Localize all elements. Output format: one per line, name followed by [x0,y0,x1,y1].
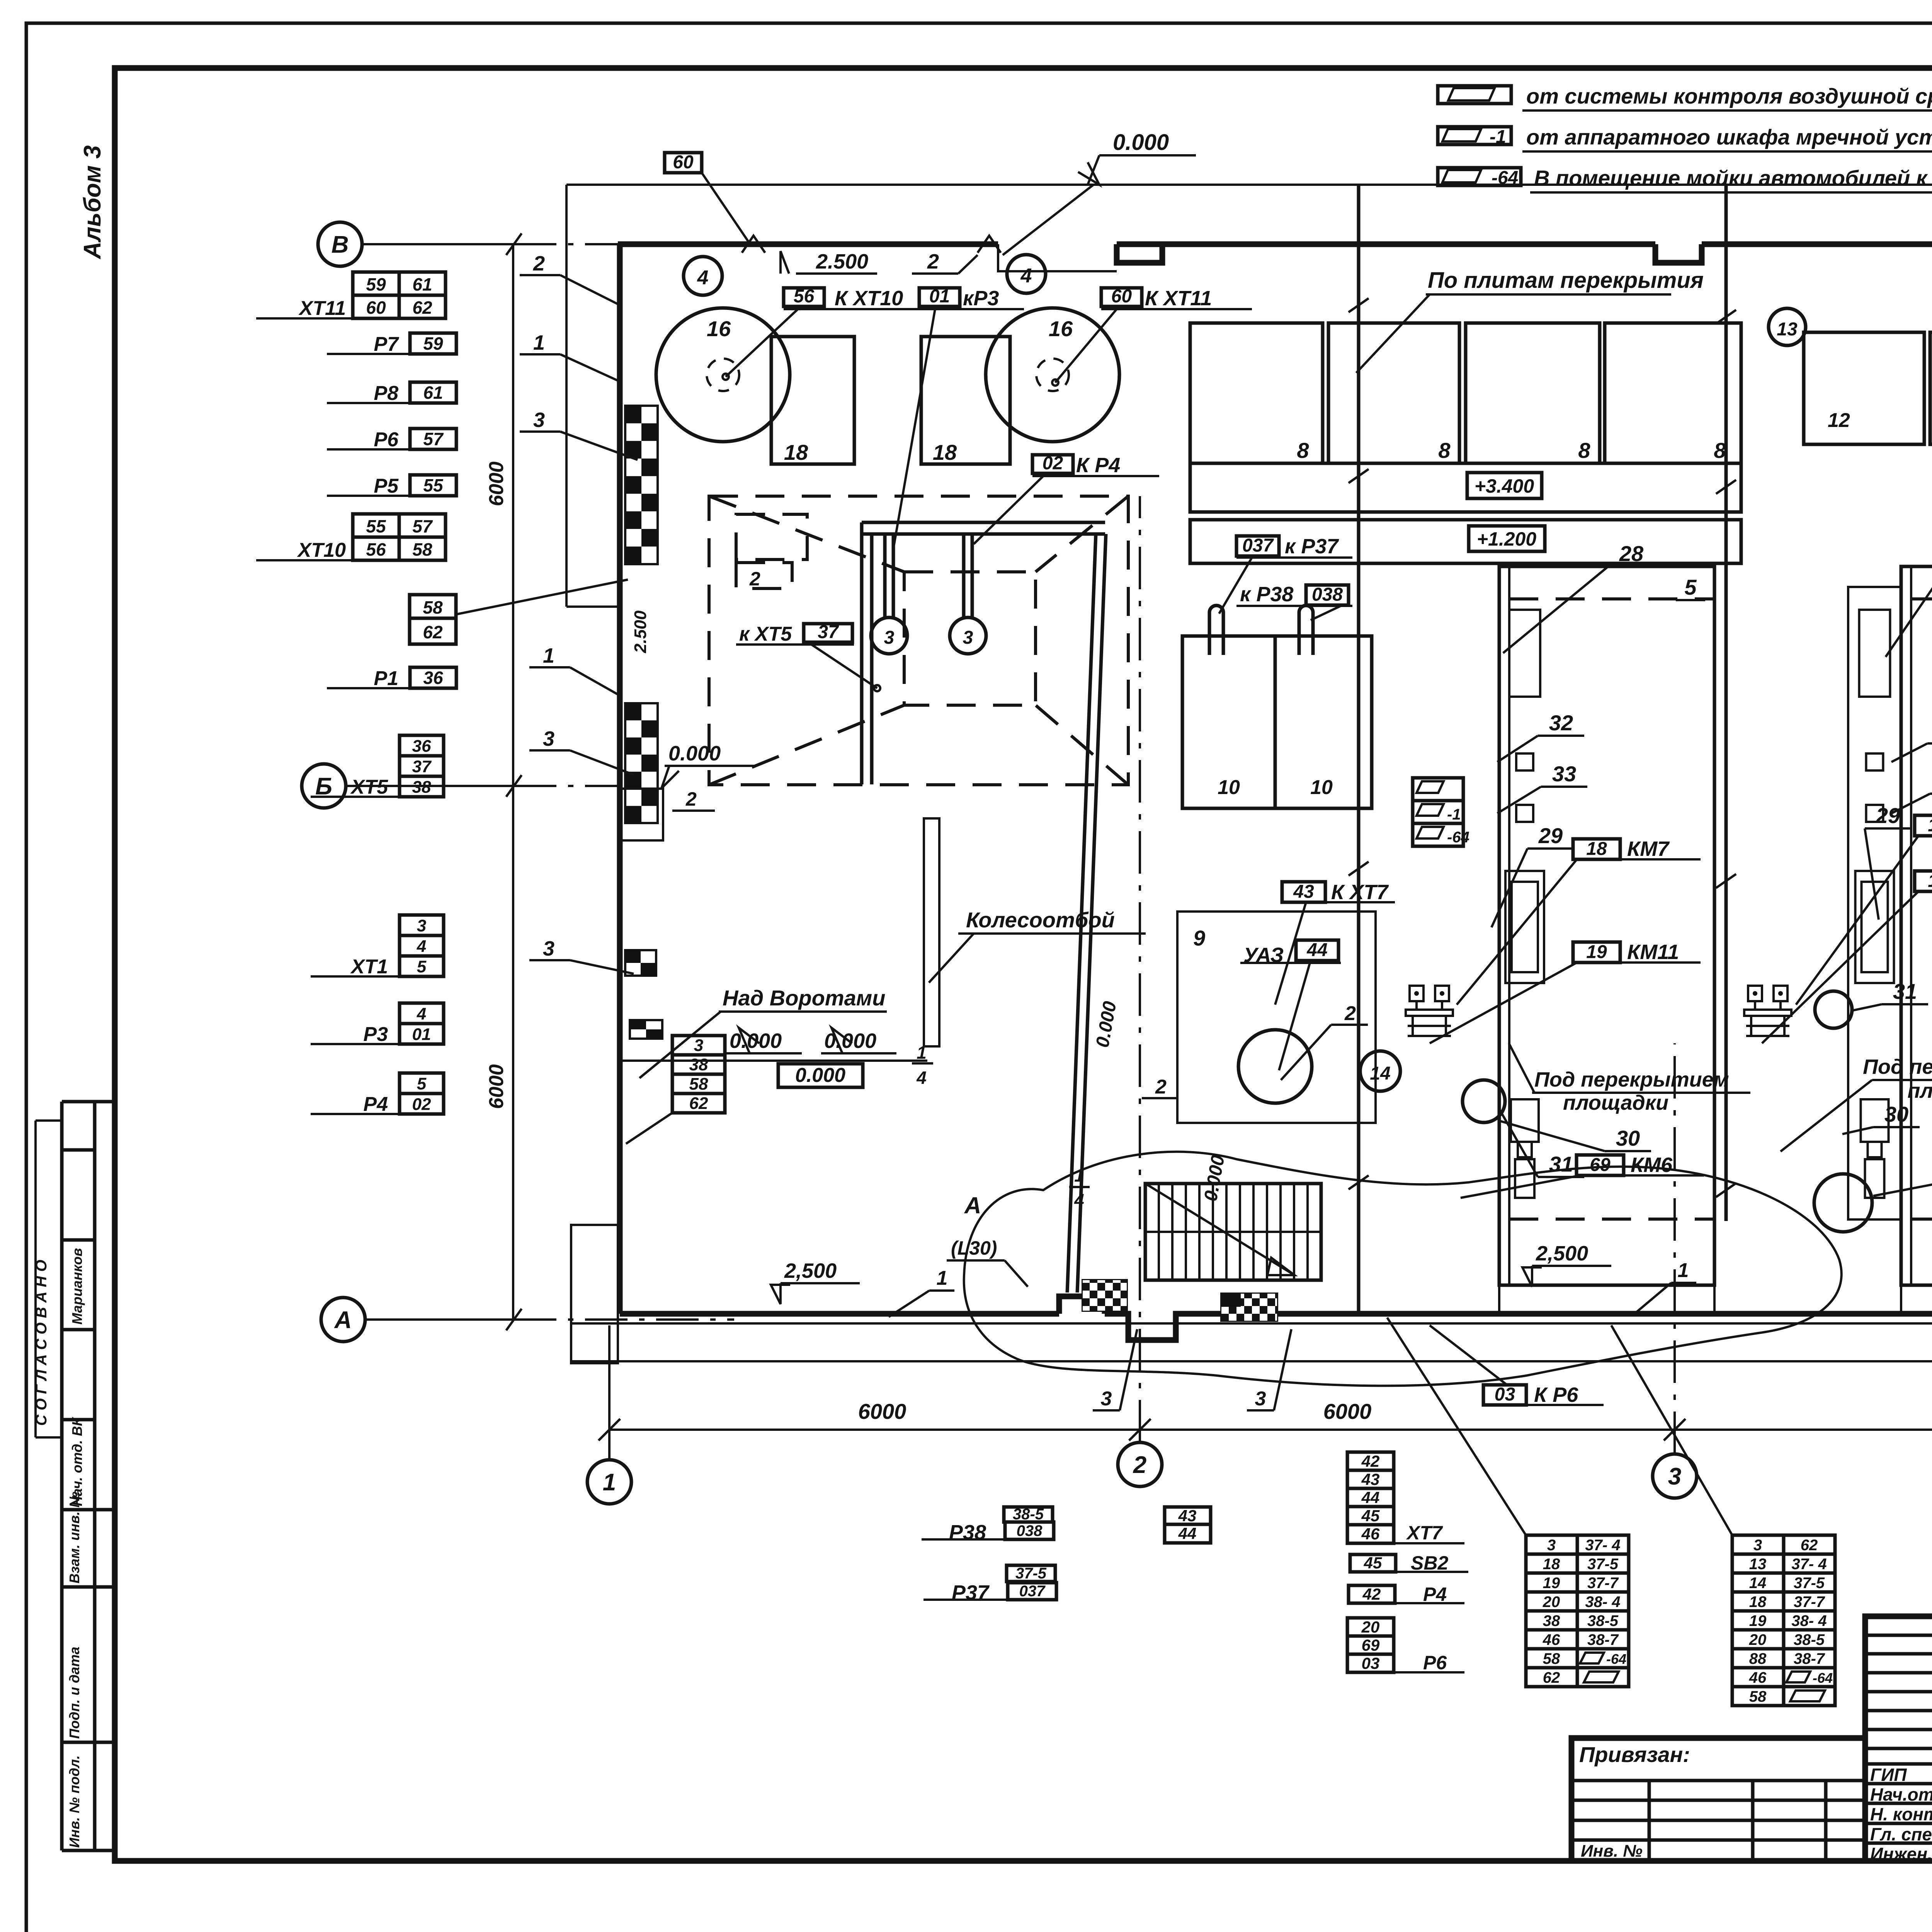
svg-text:1: 1 [603,1469,616,1496]
svg-text:Р4: Р4 [363,1093,388,1116]
svg-text:2: 2 [927,250,939,273]
svg-text:Подп. и дата: Подп. и дата [66,1647,82,1739]
svg-text:Марианков: Марианков [69,1248,85,1325]
svg-text:-64: -64 [1447,829,1469,846]
svg-text:Р4: Р4 [1423,1583,1447,1605]
svg-text:2: 2 [1155,1076,1167,1098]
svg-text:14: 14 [1928,871,1932,891]
svg-text:43: 43 [1361,1470,1380,1488]
svg-text:Под перекрытием: Под перекрытием [1863,1055,1932,1078]
svg-text:(L30): (L30) [951,1237,997,1259]
svg-text:56: 56 [366,539,386,560]
svg-text:13: 13 [1928,815,1932,835]
svg-text:3: 3 [1753,1537,1762,1554]
svg-text:Н. контр.: Н. контр. [1870,1804,1932,1824]
svg-text:03: 03 [1362,1654,1380,1672]
svg-text:Привязан:: Привязан: [1579,1742,1690,1767]
svg-text:59: 59 [366,274,386,294]
svg-text:2: 2 [749,568,760,590]
svg-text:К ХТ11: К ХТ11 [1145,287,1212,310]
svg-text:037: 037 [1242,536,1274,556]
svg-text:ГИП: ГИП [1870,1765,1907,1785]
svg-text:В: В [332,231,349,258]
svg-text:28: 28 [1619,541,1644,566]
svg-text:Гл. спец.: Гл. спец. [1870,1824,1932,1844]
svg-text:88: 88 [1749,1650,1767,1667]
svg-text:ХТ11: ХТ11 [298,297,346,320]
svg-text:38: 38 [689,1055,708,1074]
svg-text:37-5: 37-5 [1587,1556,1619,1573]
svg-text:-1: -1 [1490,127,1506,147]
svg-text:К Р6: К Р6 [1534,1383,1578,1406]
svg-text:кР3: кР3 [963,287,999,310]
svg-text:16: 16 [1049,316,1073,341]
svg-text:32: 32 [1549,711,1573,735]
svg-text:площадки: площадки [1563,1091,1668,1114]
svg-text:037: 037 [1019,1583,1046,1600]
svg-text:38-5: 38-5 [1587,1612,1619,1629]
svg-text:0.000: 0.000 [795,1064,845,1087]
svg-text:-64: -64 [1606,1651,1626,1667]
svg-text:13: 13 [1749,1556,1767,1573]
svg-text:6000: 6000 [1323,1399,1372,1423]
svg-text:59: 59 [423,333,443,354]
svg-text:36: 36 [423,668,443,688]
svg-text:Б: Б [315,773,332,800]
svg-text:Р3: Р3 [363,1023,388,1046]
svg-text:37- 4: 37- 4 [1791,1556,1827,1573]
svg-text:01: 01 [929,286,950,306]
svg-text:2: 2 [1344,1002,1356,1025]
svg-text:SВ2: SВ2 [1411,1552,1448,1574]
svg-text:57: 57 [423,429,444,449]
svg-text:3: 3 [533,408,545,432]
svg-text:01: 01 [412,1025,431,1044]
svg-text:8: 8 [1297,438,1309,463]
svg-text:02: 02 [412,1095,431,1114]
svg-text:2: 2 [1133,1452,1146,1478]
svg-text:0.000: 0.000 [1113,130,1169,155]
svg-text:Инв. №: Инв. № [1581,1842,1643,1861]
svg-text:18: 18 [1586,838,1607,859]
svg-text:12: 12 [1828,409,1850,432]
svg-text:6000: 6000 [485,1064,508,1109]
svg-text:Альбом 3: Альбом 3 [79,145,106,260]
svg-text:А: А [964,1192,981,1218]
svg-text:37: 37 [412,757,432,776]
svg-text:38-7: 38-7 [1794,1650,1825,1667]
svg-text:4: 4 [916,1068,927,1088]
svg-text:Р7: Р7 [374,333,399,355]
svg-text:31: 31 [1893,979,1917,1003]
svg-text:55: 55 [423,475,444,495]
svg-text:44: 44 [1306,940,1327,960]
svg-text:30: 30 [1616,1126,1640,1150]
svg-text:5: 5 [1684,575,1697,599]
svg-text:к ХТ5: к ХТ5 [739,623,792,645]
svg-text:К Р4: К Р4 [1076,454,1120,477]
svg-text:38- 4: 38- 4 [1791,1612,1827,1629]
svg-text:19: 19 [1586,942,1607,962]
svg-text:30: 30 [1884,1102,1908,1126]
svg-text:56: 56 [794,286,815,306]
svg-text:4: 4 [1020,265,1032,287]
svg-text:37-5: 37-5 [1794,1575,1825,1592]
svg-text:20: 20 [1361,1618,1380,1636]
svg-text:29: 29 [1538,823,1563,848]
svg-text:ХТ10: ХТ10 [297,539,346,561]
svg-text:33: 33 [1552,762,1576,786]
svg-text:62: 62 [1543,1669,1560,1686]
svg-text:2: 2 [685,788,697,810]
svg-text:69: 69 [1590,1155,1611,1175]
svg-text:1: 1 [543,644,554,667]
svg-text:2,500: 2,500 [784,1259,837,1282]
svg-text:+3.400: +3.400 [1475,475,1534,497]
svg-text:61: 61 [412,274,432,294]
svg-text:42: 42 [1361,1452,1380,1470]
svg-text:58: 58 [1543,1650,1560,1667]
svg-text:038: 038 [1017,1522,1043,1539]
svg-text:37-7: 37-7 [1587,1575,1619,1592]
svg-text:37: 37 [818,622,839,642]
svg-text:37-7: 37-7 [1794,1594,1825,1611]
svg-text:2,500: 2,500 [1536,1242,1588,1265]
svg-text:к Р37: к Р37 [1285,535,1339,558]
svg-text:3: 3 [417,916,426,935]
svg-text:38: 38 [1543,1612,1560,1629]
svg-text:от аппаратного шкафа мречной: от аппаратного шкафа мречной установки [1526,125,1932,149]
svg-text:3: 3 [884,628,895,648]
svg-text:4: 4 [417,1004,426,1023]
svg-text:Взам. инв. №: Взам. инв. № [66,1492,82,1583]
svg-text:ХТ1: ХТ1 [350,956,388,978]
svg-text:55: 55 [366,516,386,536]
svg-text:69: 69 [1362,1636,1380,1654]
svg-text:43: 43 [1293,881,1314,902]
svg-text:КМ7: КМ7 [1627,837,1670,861]
svg-text:62: 62 [1801,1537,1818,1554]
svg-text:3: 3 [1255,1388,1266,1410]
svg-text:КМ6: КМ6 [1631,1153,1673,1177]
svg-text:36: 36 [412,736,431,755]
svg-text:Р6: Р6 [374,429,399,451]
svg-text:5: 5 [417,1074,427,1093]
svg-text:57: 57 [412,516,433,536]
svg-text:60: 60 [366,298,386,318]
svg-text:2.500: 2.500 [816,250,868,273]
svg-text:10: 10 [1310,776,1333,799]
svg-text:38-7: 38-7 [1587,1631,1619,1648]
svg-text:Р5: Р5 [374,475,399,497]
svg-text:14: 14 [1370,1063,1390,1084]
svg-text:038: 038 [1312,585,1343,605]
svg-text:14: 14 [1749,1575,1767,1592]
svg-text:3: 3 [1547,1537,1556,1554]
svg-text:3: 3 [963,628,973,648]
svg-text:46: 46 [1749,1669,1767,1686]
svg-text:К ХТ10: К ХТ10 [835,287,903,310]
svg-text:18: 18 [1749,1594,1767,1611]
svg-text:18: 18 [933,440,957,464]
svg-text:19: 19 [1543,1575,1560,1592]
svg-text:58: 58 [423,597,443,617]
svg-text:46: 46 [1361,1525,1380,1543]
svg-text:20: 20 [1543,1594,1560,1611]
svg-text:к Р38: к Р38 [1240,583,1293,606]
svg-text:18: 18 [1543,1556,1560,1573]
svg-text:20: 20 [1749,1631,1767,1648]
svg-text:3: 3 [694,1036,703,1055]
svg-text:37-5: 37-5 [1015,1565,1047,1582]
svg-text:5: 5 [417,957,427,976]
svg-text:Под перекрытием: Под перекрытием [1534,1068,1729,1091]
svg-text:58: 58 [689,1075,708,1094]
svg-text:16: 16 [707,316,731,341]
svg-text:Р6: Р6 [1423,1652,1447,1673]
svg-text:Над Воротами: Над Воротами [723,986,885,1010]
svg-text:-1: -1 [1447,806,1461,823]
svg-text:4: 4 [697,267,709,289]
svg-text:1: 1 [937,1267,948,1289]
svg-text:9: 9 [1193,926,1205,950]
svg-text:45: 45 [1364,1554,1382,1572]
svg-text:Р8: Р8 [374,382,398,405]
svg-text:37- 4: 37- 4 [1585,1537,1620,1554]
svg-text:С О Г Л А С О В А Н О: С О Г Л А С О В А Н О [33,1260,50,1426]
svg-text:1: 1 [1678,1259,1689,1282]
svg-text:62: 62 [423,622,443,642]
svg-text:8: 8 [1438,438,1451,463]
svg-text:61: 61 [423,383,443,403]
svg-text:А: А [334,1307,352,1333]
svg-text:+1.200: +1.200 [1477,528,1537,550]
svg-text:6000: 6000 [858,1399,906,1423]
svg-text:60: 60 [1111,286,1132,306]
svg-text:03: 03 [1495,1384,1515,1405]
svg-text:4: 4 [417,937,426,956]
svg-text:58: 58 [1749,1688,1767,1705]
svg-text:6000: 6000 [485,461,508,506]
svg-text:КМ11: КМ11 [1627,940,1679,964]
svg-text:-64: -64 [1813,1670,1833,1686]
svg-text:3: 3 [1101,1388,1112,1410]
svg-text:Инжен.: Инжен. [1870,1844,1932,1864]
svg-text:38-5: 38-5 [1794,1631,1825,1648]
svg-text:62: 62 [689,1094,708,1113]
svg-text:43: 43 [1178,1507,1197,1525]
svg-text:2.500: 2.500 [631,610,650,653]
svg-text:2: 2 [533,252,545,275]
svg-text:3: 3 [543,727,554,750]
svg-text:45: 45 [1361,1507,1380,1525]
svg-text:ХТ7: ХТ7 [1406,1522,1443,1544]
svg-text:1: 1 [533,331,545,354]
svg-text:44: 44 [1178,1524,1197,1543]
svg-text:13: 13 [1777,319,1798,340]
svg-text:8: 8 [1578,438,1590,463]
svg-text:Колесоотбой: Колесоотбой [966,908,1115,932]
svg-text:46: 46 [1543,1631,1560,1648]
svg-text:60: 60 [673,152,694,173]
svg-text:К ХТ7: К ХТ7 [1331,881,1389,904]
svg-text:31: 31 [1549,1152,1573,1176]
svg-text:44: 44 [1361,1488,1380,1507]
svg-text:площадки: площадки [1907,1079,1932,1102]
svg-text:Нач.отд.: Нач.отд. [1870,1784,1932,1804]
svg-text:10: 10 [1218,776,1240,799]
svg-text:Р1: Р1 [374,667,398,690]
svg-text:29: 29 [1876,803,1900,828]
svg-text:19: 19 [1749,1612,1767,1629]
svg-text:18: 18 [784,440,808,464]
svg-text:62: 62 [412,298,432,318]
svg-text:3: 3 [543,937,554,960]
svg-text:3: 3 [1668,1463,1681,1490]
svg-text:58: 58 [412,539,432,560]
svg-text:42: 42 [1362,1585,1381,1603]
svg-text:4: 4 [1074,1190,1084,1210]
svg-text:По плитам перекрытия: По плитам перекрытия [1428,268,1704,293]
svg-text:Инв. № подл.: Инв. № подл. [66,1755,82,1848]
svg-text:0.000: 0.000 [668,742,721,765]
svg-text:от системы контроля воздушн: от системы контроля воздушной среды [1526,84,1932,108]
svg-text:38-5: 38-5 [1013,1506,1044,1523]
svg-text:38- 4: 38- 4 [1585,1594,1620,1611]
svg-text:В помещение мойки автомобиле: В помещение мойки автомобилей к АД2 [1534,166,1932,190]
svg-text:02: 02 [1043,453,1063,473]
